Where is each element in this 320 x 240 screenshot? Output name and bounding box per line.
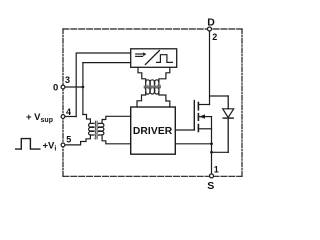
junction source/diode <box>210 151 213 154</box>
wire pin3 to node A <box>65 86 83 88</box>
wire node A to pulse shaper <box>83 62 131 64</box>
transistor Q1 source tap <box>198 128 211 130</box>
wire DRIVER to gate <box>175 129 194 131</box>
pulse shaper output pulse glyph <box>157 55 173 63</box>
svg-text:3: 3 <box>65 75 70 85</box>
transformer T2 primary winding (top) <box>146 80 159 86</box>
pulse shaper slash <box>145 51 159 65</box>
pulse shaper DC symbol (arrow) <box>136 52 147 56</box>
svg-text:1: 1 <box>214 165 219 175</box>
wire diode bottom to source <box>212 151 229 153</box>
svg-text:S: S <box>207 180 214 192</box>
svg-text:2: 2 <box>212 32 217 42</box>
junction node A <box>82 86 85 89</box>
wire source vertical to S terminal <box>211 117 213 175</box>
transformer T2 secondary winding (bottom) <box>146 88 159 94</box>
wire T2 bottom-right to DRIVER (staircase) <box>159 92 170 107</box>
wire drain node to diode top <box>210 95 229 97</box>
wire DRIVER to source <box>175 143 211 145</box>
junction source/driver <box>210 142 213 145</box>
wire node A to transformer T1 primary top (staircase) <box>83 115 91 124</box>
transformer T1 secondary winding <box>99 123 104 135</box>
terminal pin 3 <box>61 85 65 89</box>
module boundary dashed box <box>63 29 242 176</box>
svg-text:4: 4 <box>66 107 71 117</box>
svg-text:+ Vsup: + Vsup <box>26 112 53 124</box>
transformer T2 core <box>144 85 160 89</box>
diode D1 <box>223 96 234 152</box>
svg-text:0: 0 <box>53 83 58 94</box>
svg-text:5: 5 <box>66 135 71 145</box>
pulse shaper box U1 <box>131 49 177 68</box>
terminal pin 5 <box>61 143 65 147</box>
transformer T1 primary winding <box>89 123 94 135</box>
transistor Q1 channel segments <box>197 103 199 132</box>
terminal S pin 1 <box>210 174 214 178</box>
transistor Q1 gate line <box>193 101 195 130</box>
wire T1 secondary bottom to DRIVER (staircase) <box>102 135 131 144</box>
wire T2 bottom-left to DRIVER (staircase) <box>137 92 146 107</box>
terminal D pin 2 <box>208 27 212 31</box>
wire pulse shaper to T2 top-right (staircase) <box>159 67 170 82</box>
wire pin5 to T1 primary bottom (staircase) <box>65 135 91 145</box>
wire pulse shaper to T2 top-left (staircase) <box>138 67 146 82</box>
DRIVER box U2 <box>131 107 176 154</box>
svg-text:+Vi: +Vi <box>43 140 57 152</box>
transformer T1 core <box>94 121 98 139</box>
transistor Q1 body tap with arrow <box>198 114 211 118</box>
input pulse waveform symbol <box>16 139 40 150</box>
transistor Q1 drain tap <box>198 104 209 106</box>
wire pin4 riser to pulse shaper <box>76 53 131 117</box>
wire T1 secondary top to DRIVER (staircase) <box>102 116 131 123</box>
terminal pin 4 <box>61 115 65 119</box>
svg-text:DRIVER: DRIVER <box>133 126 173 137</box>
wire node A vertical <box>82 63 84 115</box>
wire drain to D terminal <box>209 31 211 104</box>
wire pin4 horizontal <box>65 116 77 118</box>
svg-text:D: D <box>207 16 215 28</box>
